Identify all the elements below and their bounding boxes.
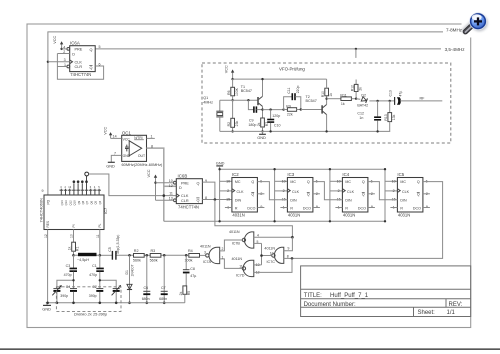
svg-text:VFO-Prüfung: VFO-Prüfung (279, 66, 305, 71)
svg-text:470p: 470p (89, 273, 97, 277)
svg-text:9: 9 (288, 247, 290, 251)
IC2 riser (218, 168, 231, 223)
svg-text:4011N: 4011N (232, 257, 243, 261)
wire IC4 Q to IC5 DIN (368, 182, 398, 200)
svg-text:VCC: VCC (147, 169, 151, 177)
svg-text:BC547: BC547 (241, 89, 252, 93)
VCC arrow VFO (224, 65, 234, 80)
svg-text:Q: Q (197, 198, 200, 202)
svg-text:390p: 390p (60, 294, 68, 298)
IC7 selection jumper dots (73, 180, 88, 183)
IC5 riser (384, 168, 398, 223)
svg-text:11: 11 (169, 192, 173, 196)
capacitor C7 680n (159, 255, 168, 304)
wire IC7 pin10 (70, 230, 74, 243)
variable capacitor gang right (112, 285, 122, 304)
wire IC7B out to IC7A input (220, 240, 243, 251)
svg-text:Q1: Q1 (203, 96, 208, 100)
resistor R5 2k (179, 286, 191, 303)
svg-text:4MHz: 4MHz (203, 101, 213, 105)
svg-text:PRE: PRE (75, 48, 83, 52)
svg-text:1k: 1k (329, 93, 333, 97)
resistor R3 560k (150, 249, 161, 262)
svg-text:GND: GND (106, 164, 115, 169)
svg-text:REV:: REV: (449, 302, 463, 308)
resistor R4 100k (185, 249, 200, 262)
svg-text:Q7: Q7 (85, 200, 89, 204)
svg-text:R1: R1 (76, 247, 80, 251)
wire PRE IC6A (62, 48, 67, 50)
net label 7-8MHz (446, 28, 463, 33)
svg-text:C8: C8 (190, 267, 195, 271)
svg-text:10: 10 (270, 252, 274, 256)
net 3,5-4MHz wire (95, 48, 441, 50)
svg-text:Q: Q (197, 182, 200, 186)
svg-text:8: 8 (151, 144, 153, 148)
svg-text:4031N: 4031N (398, 213, 410, 218)
svg-text:560k: 560k (150, 259, 158, 263)
svg-text:IC2: IC2 (232, 172, 239, 177)
wire IC2 Q to IC3 DIN (257, 182, 287, 200)
svg-text:C10: C10 (274, 123, 281, 127)
page bottom edge line (0, 348, 500, 350)
svg-text:4031N: 4031N (232, 213, 244, 218)
svg-text:470p: 470p (64, 273, 72, 277)
IC4 riser (329, 168, 343, 223)
svg-text:IC6B: IC6B (178, 173, 188, 178)
VCC arrow IC6A (53, 36, 63, 51)
OC1 output pin 8 wire (clock drop) (147, 144, 177, 221)
svg-text:R9: R9 (286, 104, 291, 108)
nand gate IC7D (232, 257, 260, 277)
svg-text:2k: 2k (358, 87, 362, 91)
svg-text:Q4: Q4 (98, 200, 102, 204)
resistor R9 22k (284, 104, 302, 116)
svg-text:47µ: 47µ (398, 91, 402, 97)
oscillator OC1 (122, 130, 164, 167)
svg-text:R3: R3 (151, 249, 156, 253)
base wire to T2 (301, 109, 322, 111)
svg-text:11: 11 (239, 264, 243, 268)
svg-text:RES: RES (46, 221, 50, 228)
transistor T1 BC547 (220, 78, 264, 118)
svg-text:R2: R2 (227, 122, 231, 126)
svg-text:12: 12 (169, 184, 173, 188)
svg-text:7: 7 (114, 152, 116, 156)
diode D2 BAT42 (356, 93, 378, 107)
svg-text:CLK: CLK (75, 60, 83, 64)
capacitor C2 390p (89, 285, 104, 304)
capacitor C3 470p (64, 255, 77, 288)
IC3 riser (273, 168, 287, 223)
wire IC5 Q delayed loop to gates (292, 182, 443, 259)
svg-text:OUT: OUT (138, 154, 145, 158)
svg-text:D: D (72, 53, 75, 57)
svg-text:1k: 1k (68, 246, 72, 250)
svg-text:47µ: 47µ (190, 274, 196, 278)
svg-text:Q8: Q8 (81, 200, 85, 204)
svg-text:220p: 220p (296, 86, 300, 94)
collector node wire to R11 (325, 98, 341, 100)
svg-text:60MHz(20MHz-60MHz): 60MHz(20MHz-60MHz) (122, 162, 164, 167)
svg-text:R12: R12 (351, 85, 355, 91)
svg-text:BAT42: BAT42 (357, 103, 368, 107)
wire IC7 pin11 (96, 230, 101, 257)
svg-text:680n: 680n (142, 297, 150, 301)
wire IC3 Q to IC4 DIN (313, 182, 343, 200)
svg-text:74HCT74N: 74HCT74N (178, 204, 199, 209)
wire IC5 delayed to IC7C/IC7D inputs (254, 257, 294, 272)
svg-text:Q6: Q6 (89, 200, 93, 204)
wire Qbar IC6B to IC2 DIN (202, 198, 232, 201)
wire IC7 tap to IC6B CLK (89, 174, 177, 196)
svg-text:PO: PO (47, 199, 51, 204)
svg-text:C13: C13 (389, 90, 393, 96)
svg-text:Q13: Q13 (64, 200, 68, 206)
feedback rail to gates (215, 200, 293, 238)
svg-text:D: D (179, 186, 182, 190)
node junction CLK IC6A (47, 61, 49, 63)
VCC arrow IC6B (147, 169, 173, 200)
IC7 Q outputs pin stubs (60, 176, 102, 206)
svg-text:IC7C: IC7C (267, 260, 276, 264)
svg-text:22k: 22k (287, 112, 293, 116)
nand gate IC7A (200, 244, 224, 264)
net label 3,5-4MHz (445, 47, 466, 52)
svg-text:Q10: Q10 (73, 200, 77, 206)
svg-text:2k: 2k (257, 122, 261, 126)
svg-text:100K: 100K (235, 87, 239, 96)
svg-text:3: 3 (204, 251, 206, 255)
svg-text:7-8MHz: 7-8MHz (446, 28, 463, 33)
svg-text:R5: R5 (187, 291, 191, 295)
resistor R1 1k (68, 242, 80, 256)
shift register IC3 4031N (280, 172, 320, 217)
svg-text:1n: 1n (359, 116, 363, 120)
svg-text:680n: 680n (159, 297, 167, 301)
svg-text:GND: GND (216, 160, 225, 165)
svg-text:120p: 120p (272, 114, 280, 118)
wire IC7A output to R4 (200, 254, 206, 256)
title block (301, 266, 471, 317)
svg-text:Q5: Q5 (94, 200, 98, 204)
capacitor C9 180p (247, 99, 262, 127)
svg-text:IC5: IC5 (397, 172, 404, 177)
inductor L1 (74, 253, 100, 262)
svg-text:R4: R4 (188, 249, 193, 253)
svg-text:PI: PI (72, 224, 76, 227)
svg-text:VCC: VCC (224, 65, 228, 73)
ground symbol VFO (257, 131, 266, 140)
shift register IC5 4031N (390, 172, 430, 217)
svg-text:Huff_Puff_7_1: Huff_Puff_7_1 (330, 293, 369, 299)
ground above IC2 (216, 160, 225, 169)
wire vertical to IC7C top input (284, 237, 293, 251)
bridge wires to tuning gang (57, 279, 116, 289)
svg-text:74HCT4060N: 74HCT4060N (39, 198, 44, 223)
VFO ground rail (220, 130, 390, 132)
svg-text:1: 1 (151, 135, 153, 139)
svg-text:C3: C3 (66, 264, 71, 268)
svg-text:Q: Q (90, 66, 93, 70)
svg-text:IC7: IC7 (103, 207, 108, 214)
svg-text:C6: C6 (144, 286, 149, 290)
svg-text:IC4: IC4 (342, 172, 349, 177)
capacitor C6 680n (142, 255, 151, 304)
main loop-filter line (116, 254, 189, 257)
svg-text:4011N: 4011N (229, 230, 240, 234)
svg-text:VCC: VCC (104, 127, 108, 135)
svg-text:C12: C12 (357, 111, 364, 115)
net 7-8MHz wire (48, 32, 443, 195)
shift register IC2 4031N (225, 172, 265, 217)
resistor R2 560k (133, 249, 144, 262)
svg-text:VCC: VCC (53, 36, 57, 44)
svg-text:R6: R6 (227, 90, 231, 94)
resistor R10 1k (321, 79, 333, 97)
resistor R6 100K (227, 79, 239, 101)
VCC arrow OC1 pin 14 (104, 127, 122, 139)
counter IC7 74HCT4060N (39, 189, 109, 230)
wire D/CLR feedback loop IC6A (57, 54, 103, 80)
svg-text:CLK: CLK (181, 194, 189, 198)
svg-text:180p: 180p (248, 123, 256, 127)
svg-text:R13: R13 (384, 114, 388, 120)
svg-text:2k: 2k (179, 291, 183, 295)
svg-text:C5: C5 (108, 247, 112, 252)
svg-text:Q14: Q14 (60, 200, 64, 206)
diode D1 1N4007 (125, 255, 134, 304)
svg-text:12: 12 (44, 234, 48, 238)
capacitor C11 220p (282, 86, 300, 111)
variable capacitor gang left (52, 285, 62, 304)
svg-text:~4,5µH: ~4,5µH (77, 258, 89, 262)
ground rail bottom left (46, 302, 185, 304)
emitter node wire (263, 109, 284, 111)
svg-text:D2: D2 (361, 93, 366, 97)
transistor T2 BC547 (306, 95, 328, 133)
wire IC7D out to IC7A input (220, 259, 243, 269)
svg-text:C11: C11 (287, 88, 291, 94)
svg-text:Drehko 2x 15-390p: Drehko 2x 15-390p (74, 311, 108, 316)
svg-text:11: 11 (96, 234, 100, 238)
svg-text:GND: GND (42, 306, 51, 311)
wire IC7B top input (254, 236, 294, 239)
capacitor C5 trimmer 36p (100, 235, 120, 260)
resistor R2 23k (VFO) (227, 100, 239, 132)
capacitor C12 1n (357, 100, 381, 133)
svg-text:C7: C7 (161, 286, 166, 290)
flip-flop IC6B (169, 173, 207, 209)
wire CLK IC6A from 7-8 net (48, 61, 70, 63)
svg-text:Q: Q (90, 48, 93, 52)
resistor R11 1k (340, 93, 356, 106)
RF output wire (400, 96, 442, 101)
svg-text:IC3: IC3 (287, 172, 294, 177)
svg-text:PL: PL (98, 223, 102, 227)
flip-flop IC6A (63, 41, 100, 78)
VCC rail VFO (233, 78, 327, 80)
svg-text:Q12: Q12 (68, 200, 72, 206)
dashed VFO box (202, 63, 451, 143)
wire diode node to C13 (378, 100, 395, 102)
svg-text:C1: C1 (92, 264, 97, 268)
drawing frame (27, 24, 471, 328)
resistor R7 2k emitter (257, 108, 269, 132)
svg-text:5: 5 (99, 45, 101, 49)
svg-text:BC547: BC547 (306, 99, 317, 103)
svg-text:4031N: 4031N (288, 213, 300, 218)
svg-text:4031N: 4031N (343, 213, 355, 218)
dashed gang box Drehko (56, 287, 121, 317)
output terminal node (85, 172, 89, 176)
capacitor C4 390p (60, 285, 77, 304)
svg-text:RF: RF (420, 96, 426, 100)
svg-text:IC7A: IC7A (203, 260, 212, 264)
svg-text:OC1: OC1 (122, 130, 132, 135)
svg-text:Document Number:: Document Number: (304, 302, 356, 308)
wire Q IC6B (202, 182, 215, 199)
svg-text:10: 10 (70, 234, 74, 238)
svg-text:14: 14 (113, 135, 117, 139)
nand gate IC7C (264, 246, 289, 264)
svg-text:Q9: Q9 (77, 200, 81, 204)
svg-text:R10: R10 (321, 91, 325, 97)
ground symbol bottom left (42, 303, 51, 312)
capacitor C8 47u (183, 255, 196, 286)
wire IC7 pin12 to ground (44, 230, 49, 305)
svg-text:3,5-4MHz: 3,5-4MHz (445, 47, 466, 52)
svg-text:2: 2 (222, 247, 224, 251)
svg-text:CLR: CLR (75, 65, 83, 69)
svg-text:IC7D: IC7D (236, 274, 245, 278)
svg-text:D1: D1 (125, 270, 129, 274)
ground rail over shift registers (220, 168, 385, 170)
svg-text:560k: 560k (133, 259, 141, 263)
svg-text:13k: 13k (392, 114, 396, 120)
crystal Q1 4MHz (203, 96, 223, 131)
svg-text:CLR: CLR (181, 199, 189, 203)
svg-text:R2: R2 (134, 249, 139, 253)
svg-text:1N4007: 1N4007 (130, 265, 134, 277)
title text (304, 293, 463, 316)
svg-text:GND: GND (257, 135, 266, 140)
resistor R12 2k (351, 80, 363, 100)
svg-text:23k: 23k (235, 121, 239, 127)
resistor R13 13k (384, 100, 396, 132)
pin 1 stub OC1 (147, 135, 155, 139)
svg-text:4011N: 4011N (264, 246, 275, 250)
shift register IC4 4031N (335, 172, 375, 217)
ground OC1 pin 7 (106, 152, 122, 169)
svg-text:390p: 390p (89, 294, 97, 298)
svg-text:PRE: PRE (181, 181, 189, 185)
svg-text:TITLE:: TITLE: (304, 293, 322, 299)
svg-text:4011N: 4011N (200, 244, 211, 248)
junction clock line (163, 194, 166, 197)
wire IC7C out to IC7B/IC7D inputs (254, 243, 272, 265)
svg-text:36p(1,5-33p): 36p(1,5-33p) (116, 235, 120, 254)
clock rail under shift registers (164, 220, 385, 222)
svg-text:1/1: 1/1 (447, 310, 456, 316)
capacitor C13 47u output (389, 90, 403, 105)
svg-text:9: 9 (42, 189, 44, 193)
svg-text:Sheet:: Sheet: (418, 310, 436, 316)
svg-text:74HCT74N: 74HCT74N (70, 72, 91, 77)
nand gate IC7B (229, 230, 259, 248)
capacitor C1 470p (89, 255, 104, 288)
node junction to R12 stub (355, 48, 357, 58)
capacitor C10 120p (267, 108, 280, 132)
svg-text:R11: R11 (340, 93, 346, 97)
svg-text:IC6A: IC6A (70, 41, 80, 46)
svg-text:IC7B: IC7B (232, 241, 241, 245)
svg-text:1k: 1k (341, 102, 345, 106)
